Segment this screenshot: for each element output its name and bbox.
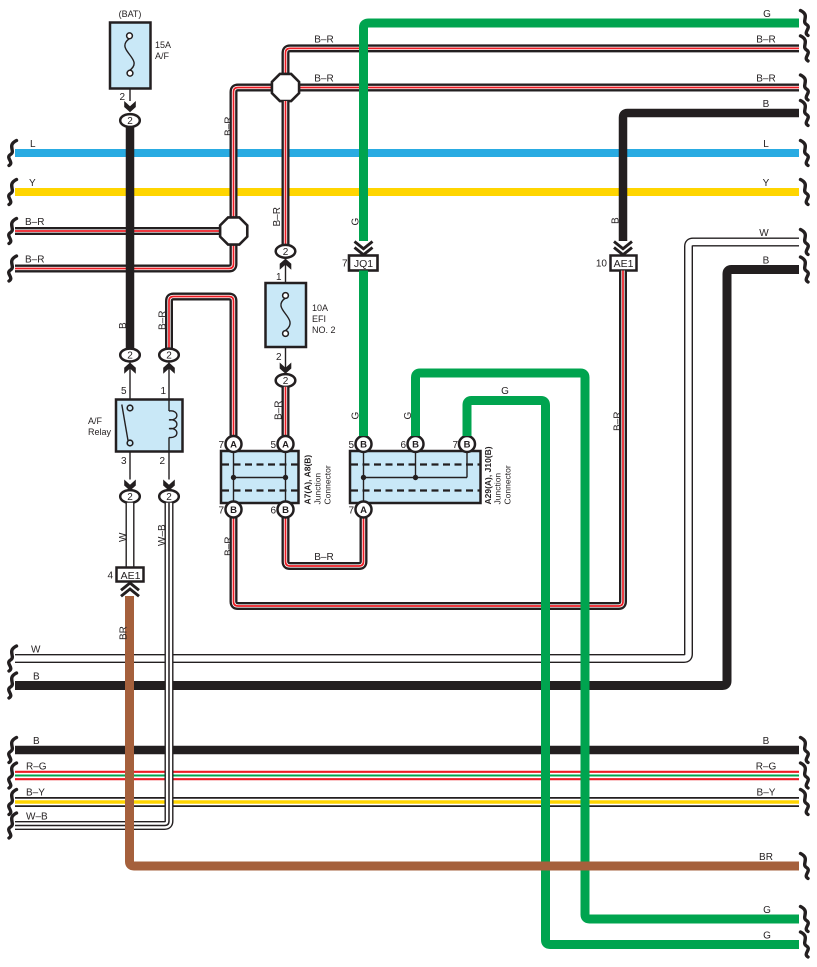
svg-text:R–G: R–G [756, 762, 777, 773]
svg-text:W: W [759, 228, 769, 239]
svg-text:G: G [351, 412, 362, 420]
wire B-R relay pin1 to junction pin 7A [158, 297, 234, 437]
oval terminal 2 relay pin5 [120, 349, 140, 400]
wire R-G bus [9, 762, 809, 789]
wire B-R top bus 1 [286, 34, 809, 74]
svg-text:B–R: B–R [756, 74, 775, 85]
svg-text:L: L [763, 139, 769, 150]
junction connector A7(A),A8(B) [221, 451, 333, 505]
svg-text:B–R: B–R [756, 34, 775, 45]
svg-text:2: 2 [166, 351, 172, 362]
svg-text:B–R: B–R [25, 255, 44, 266]
svg-text:G: G [351, 218, 362, 226]
svg-text:G: G [403, 412, 414, 420]
wire B-R octagon1 down to fuse EFI [272, 101, 286, 245]
svg-text:B: B [33, 736, 40, 747]
svg-text:B: B [412, 439, 419, 450]
wire G pin 6B loop to right edge [403, 373, 808, 932]
wire B-R left bus 1 [9, 217, 221, 244]
oval terminal 2 below fuse EFI [276, 374, 296, 387]
pin 5A connector1 [270, 436, 293, 452]
svg-text:B–Y: B–Y [26, 788, 45, 799]
junction connector A29(A),J10(B) [350, 446, 513, 504]
wire B bottom bus [9, 736, 809, 763]
relay pin3 lead [121, 452, 136, 491]
svg-text:W: W [31, 645, 41, 656]
svg-text:Junction: Junction [493, 473, 503, 505]
svg-text:W–B: W–B [26, 812, 48, 823]
wire B-R top bus 2 [299, 74, 809, 101]
svg-text:2: 2 [159, 456, 165, 467]
connector 7 JQ1 [342, 242, 378, 271]
svg-text:NO. 2: NO. 2 [312, 325, 336, 335]
svg-text:10: 10 [596, 259, 608, 270]
svg-text:10A: 10A [312, 303, 328, 313]
svg-text:1: 1 [276, 272, 282, 283]
oval terminal 2 below relay pin2 [159, 490, 179, 503]
svg-text:B: B [360, 439, 367, 450]
oval terminal 2 above fuse EFI [276, 245, 296, 283]
svg-text:B: B [33, 672, 40, 683]
svg-text:B–R: B–R [224, 537, 235, 556]
svg-text:B–R: B–R [314, 34, 333, 45]
svg-text:15A: 15A [155, 40, 171, 50]
wire B fuse to relay [118, 127, 130, 349]
svg-text:B: B [611, 217, 622, 224]
wire W wrap-around [9, 228, 809, 671]
svg-text:EFI: EFI [312, 314, 326, 324]
relay A/F box [88, 400, 183, 452]
svg-text:B–R: B–R [613, 412, 624, 431]
svg-text:A: A [282, 439, 289, 450]
svg-text:2: 2 [283, 376, 289, 387]
svg-text:B: B [464, 439, 471, 450]
pin 7A connector2 [348, 502, 371, 518]
svg-text:B–R: B–R [314, 552, 333, 563]
svg-text:B: B [763, 736, 770, 747]
svg-text:B: B [230, 505, 237, 516]
svg-text:Y: Y [763, 178, 770, 189]
pin 7B connector1 [218, 502, 241, 518]
svg-text:B–R: B–R [272, 207, 283, 226]
svg-text:Y: Y [29, 178, 36, 189]
svg-text:G: G [763, 9, 771, 20]
svg-text:B–R: B–R [25, 217, 44, 228]
svg-text:5: 5 [348, 440, 354, 451]
svg-text:7: 7 [342, 259, 348, 270]
wire B-R octagon2 to octagon1 [224, 88, 273, 219]
oval terminal 2 below relay pin3 [120, 490, 140, 503]
svg-text:BR: BR [759, 852, 773, 863]
svg-text:B–Y: B–Y [757, 788, 776, 799]
svg-text:G: G [763, 931, 771, 942]
wire G JQ1 to pin 5B [351, 271, 364, 437]
pin 7A connector1 [218, 436, 241, 452]
svg-text:7: 7 [348, 506, 354, 517]
junction octagon J1 [272, 74, 299, 101]
svg-text:5: 5 [270, 440, 276, 451]
svg-text:W–B: W–B [157, 524, 168, 546]
wire B-R AE1 loop to junction connector pin 7B [224, 271, 624, 607]
svg-text:2: 2 [127, 492, 133, 503]
svg-text:2: 2 [127, 116, 133, 127]
svg-text:G: G [763, 905, 771, 916]
connector 4 AE1 [107, 568, 143, 597]
svg-text:A29(A), J10(B): A29(A), J10(B) [483, 446, 493, 504]
svg-text:A: A [230, 439, 237, 450]
svg-text:2: 2 [276, 352, 282, 363]
svg-text:(BAT): (BAT) [119, 9, 142, 19]
pin 5B connector2 [348, 436, 371, 452]
svg-text:6: 6 [270, 506, 276, 517]
wire W relay pin3 to AE1 [118, 503, 130, 568]
svg-text:Junction: Junction [313, 473, 323, 505]
svg-text:2: 2 [127, 351, 133, 362]
svg-text:BR: BR [119, 626, 130, 640]
wire B-R pin 6B to pin 7A connector2 [286, 518, 364, 567]
svg-text:B–R: B–R [314, 74, 333, 85]
wire L (blue bus) [9, 139, 809, 166]
svg-text:4: 4 [107, 571, 113, 582]
svg-text:JQ1: JQ1 [354, 258, 373, 270]
svg-text:B–R: B–R [158, 311, 169, 330]
junction octagon J2 [220, 217, 247, 244]
wire W-B relay pin2 to left bus [9, 503, 169, 838]
svg-text:L: L [30, 139, 36, 150]
svg-text:A: A [360, 505, 367, 516]
svg-text:B: B [763, 256, 770, 267]
wire B wrap-around [9, 256, 809, 699]
svg-text:AE1: AE1 [121, 570, 141, 582]
relay pin2 lead [159, 452, 174, 491]
pin 6B connector1 [270, 502, 293, 518]
oval terminal 2 relay pin1 [159, 349, 179, 400]
wire B-Y bus [9, 788, 809, 815]
svg-text:5: 5 [121, 386, 127, 397]
svg-text:A/F: A/F [88, 416, 103, 426]
oval terminal 2 below fuse A/F [120, 114, 140, 127]
wire G top bus to JQ1 [351, 9, 809, 241]
svg-text:R–G: R–G [26, 762, 47, 773]
fuse 15A A/F [110, 9, 171, 112]
svg-text:B–R: B–R [224, 117, 235, 136]
svg-text:Relay: Relay [88, 427, 112, 437]
svg-text:7: 7 [452, 440, 458, 451]
svg-text:7: 7 [218, 440, 224, 451]
pin 6B connector2 [400, 436, 423, 452]
wire B-R left bus 2 [9, 245, 234, 281]
fuse 10A EFI NO.2 [266, 283, 336, 374]
wire Y (yellow bus) [9, 178, 809, 205]
wire B top right to AE1 [611, 99, 809, 241]
svg-text:3: 3 [121, 456, 127, 467]
svg-text:A/F: A/F [155, 51, 170, 61]
svg-text:B: B [118, 322, 129, 329]
svg-text:6: 6 [400, 440, 406, 451]
svg-text:B–R: B–R [274, 401, 285, 420]
svg-text:2: 2 [283, 247, 289, 258]
svg-text:B: B [282, 505, 289, 516]
svg-text:B: B [763, 99, 770, 110]
svg-text:A7(A), A8(B): A7(A), A8(B) [303, 455, 313, 505]
svg-text:Connector: Connector [323, 465, 333, 504]
wire B-R fuse EFI to pin 5A [274, 387, 286, 436]
svg-text:G: G [501, 386, 509, 397]
svg-text:Connector: Connector [503, 465, 513, 504]
svg-text:W: W [118, 532, 129, 542]
connector 10 AE1 [596, 242, 637, 271]
wire G pin 7B loop to right edge [467, 386, 808, 957]
svg-text:1: 1 [160, 386, 166, 397]
svg-text:2: 2 [166, 492, 172, 503]
wire BR AE1 to right edge [119, 596, 809, 879]
svg-text:7: 7 [218, 506, 224, 517]
pin 7B connector2 [452, 436, 475, 452]
svg-text:AE1: AE1 [614, 258, 634, 270]
